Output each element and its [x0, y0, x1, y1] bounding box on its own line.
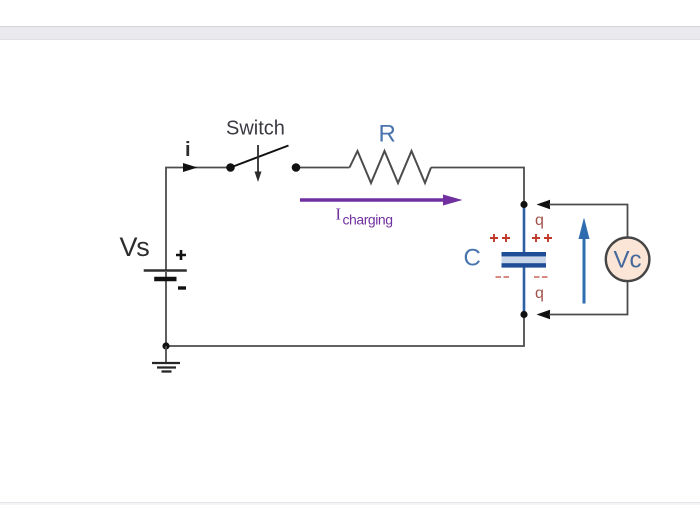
capacitor lead (blue)	[523, 204, 526, 313]
wire: resistor to right corner, down to top cap node	[431, 168, 524, 206]
svg-text:I: I	[336, 205, 342, 224]
wire: top run, corner to switch left dot	[165, 167, 230, 169]
svg-text:Switch: Switch	[226, 118, 285, 140]
Vc rise arrow (blue)	[583, 237, 586, 304]
battery minus sign	[178, 286, 186, 289]
ground bars	[152, 362, 180, 364]
switch left contact dot	[226, 163, 235, 172]
voltmeter top probe arrowhead	[537, 200, 551, 210]
battery plus sign	[176, 250, 186, 260]
wire: bottom cap node down to bottom-right corner and bottom run	[166, 315, 524, 347]
node: bottom capacitor junction	[520, 311, 527, 318]
battery Vs: short negative plate	[154, 277, 176, 281]
minus charges left	[496, 276, 510, 278]
battery Vs: long positive plate	[144, 269, 187, 271]
svg-text:q: q	[535, 212, 544, 229]
current arrow on top-left wire	[183, 163, 198, 172]
svg-text:i: i	[185, 139, 191, 161]
svg-text:Vc: Vc	[614, 247, 642, 274]
bottom strip	[0, 502, 700, 505]
voltmeter top wire	[549, 205, 628, 239]
switch closing arrow	[257, 145, 259, 173]
wire: switch right dot to resistor	[296, 167, 350, 169]
svg-text:C: C	[464, 245, 481, 272]
voltmeter bottom probe arrowhead	[537, 310, 551, 320]
capacitor C body	[502, 256, 547, 264]
svg-text:Vs: Vs	[120, 232, 150, 262]
top toolbar strip	[0, 26, 700, 40]
switch blade	[231, 146, 289, 168]
switch right contact dot	[292, 163, 301, 172]
plus charges left	[490, 234, 510, 242]
voltmeter Vc body	[606, 237, 650, 281]
svg-text:R: R	[379, 121, 396, 148]
wire: battery to ground node	[165, 272, 167, 346]
node: ground junction	[162, 342, 169, 349]
svg-text:q: q	[535, 285, 544, 302]
svg-text:charging: charging	[343, 212, 393, 228]
ground stem	[165, 346, 167, 363]
voltmeter bottom wire	[549, 281, 628, 315]
charging-current arrow (purple)	[300, 198, 445, 202]
minus charges right	[534, 276, 548, 278]
node: top capacitor junction	[520, 201, 527, 208]
plus charges right	[532, 234, 552, 242]
wire: left vertical (corner to battery)	[165, 168, 167, 270]
resistor R zigzag	[350, 151, 432, 183]
